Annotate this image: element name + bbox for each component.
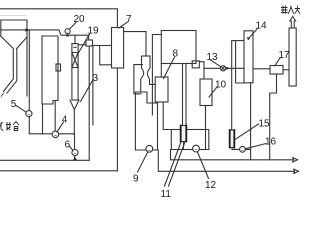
svg-text:19: 19	[88, 26, 100, 37]
svg-text:6: 6	[65, 140, 71, 151]
svg-text:5: 5	[11, 99, 17, 110]
svg-text:12: 12	[205, 180, 217, 191]
svg-text:17: 17	[279, 50, 291, 61]
svg-text:20: 20	[74, 14, 86, 25]
svg-text:9: 9	[133, 174, 139, 185]
svg-text:14: 14	[256, 21, 268, 32]
svg-text:7: 7	[126, 14, 132, 25]
svg-text:10: 10	[215, 80, 227, 91]
svg-text:4: 4	[62, 115, 68, 126]
svg-text:16: 16	[265, 137, 277, 148]
svg-text:11: 11	[161, 189, 172, 200]
svg-text:15: 15	[259, 119, 271, 130]
svg-text:8: 8	[173, 49, 179, 60]
svg-text:3: 3	[93, 73, 99, 84]
svg-text:13: 13	[207, 52, 219, 63]
